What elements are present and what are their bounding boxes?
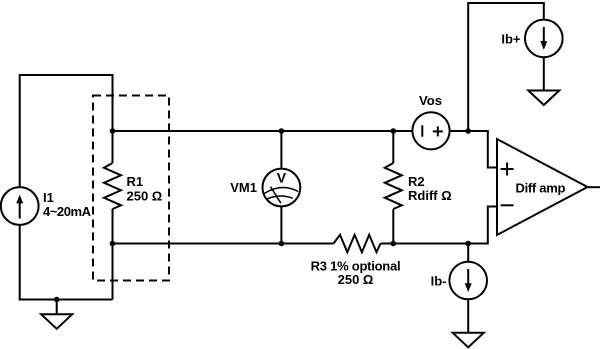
wire: VM1 top lead xyxy=(280,131,282,169)
junction: op-amp - node xyxy=(465,241,471,247)
current source Ib+ xyxy=(525,20,563,58)
current source I1 xyxy=(1,187,39,225)
dashed boundary box around R1 xyxy=(93,96,169,281)
resistor R3 xyxy=(334,235,381,252)
wire: node down to Ib- xyxy=(467,244,469,262)
junction: R1 bottom node xyxy=(110,241,116,247)
current source Ib- xyxy=(449,262,487,300)
wire: Ib- bottom to ground xyxy=(467,299,469,333)
wire: bottom rail from R3 to op-amp column xyxy=(381,243,469,245)
voltmeter VM1 xyxy=(263,169,301,207)
resistor R1 xyxy=(104,163,121,209)
wire: Vos right to node at op-amp column xyxy=(450,130,469,132)
junction: op-amp + node xyxy=(465,128,471,134)
junction: R1 top node xyxy=(110,128,116,134)
svg-text:VM1: VM1 xyxy=(230,180,257,195)
wire: node up and over to Ib+ xyxy=(468,3,544,131)
wire: R1 bottom lead down to lower-left rail xyxy=(112,209,114,300)
op-amp U1 Diff amp xyxy=(497,139,588,235)
wire: R2 bottom lead xyxy=(392,209,394,244)
svg-text:V: V xyxy=(277,170,287,186)
svg-text:4~20mA: 4~20mA xyxy=(43,204,92,219)
wire: op-amp output xyxy=(588,186,600,188)
junction: VM1 bottom node xyxy=(279,241,285,247)
junction: R2 bottom node xyxy=(391,241,397,247)
voltage source Vos xyxy=(412,112,449,149)
ground (under Ib-) xyxy=(453,333,484,348)
wire: step into op-amp + input xyxy=(468,131,497,168)
junction: VM1 top node xyxy=(279,128,285,134)
wire: R1 top lead xyxy=(112,131,114,163)
resistor R2 xyxy=(385,163,402,209)
wire: top rail from R1 to Vos xyxy=(113,130,413,132)
wire: I1 bottom to lower-left rail xyxy=(20,225,113,300)
wire: ground stub under I1 loop xyxy=(56,300,58,315)
svg-text:Vos: Vos xyxy=(419,93,442,108)
svg-text:Rdiff Ω: Rdiff Ω xyxy=(408,188,452,203)
wire: I1 top loop to R1 top xyxy=(20,75,113,187)
junction: ground node under I1 xyxy=(54,297,60,303)
svg-text:R1: R1 xyxy=(127,174,144,189)
ground (under I1 loop) xyxy=(41,314,72,329)
svg-text:R2: R2 xyxy=(408,174,425,189)
wire: step into op-amp - input xyxy=(468,207,497,244)
junction: R2 top node xyxy=(391,128,397,134)
wire: R2 top lead xyxy=(392,131,394,163)
svg-text:Ib-: Ib- xyxy=(431,274,447,289)
svg-text:Ib+: Ib+ xyxy=(501,32,521,47)
wire: VM1 bottom lead xyxy=(280,206,282,243)
svg-text:Diff amp: Diff amp xyxy=(516,181,566,196)
wire: Ib+ bottom to ground xyxy=(543,57,545,91)
svg-text:I1: I1 xyxy=(43,190,54,205)
wire: bottom rail from R1 to R3 xyxy=(113,243,334,245)
svg-text:250 Ω: 250 Ω xyxy=(127,188,163,203)
svg-text:250 Ω: 250 Ω xyxy=(338,272,374,287)
ground (under Ib+) xyxy=(528,91,559,106)
